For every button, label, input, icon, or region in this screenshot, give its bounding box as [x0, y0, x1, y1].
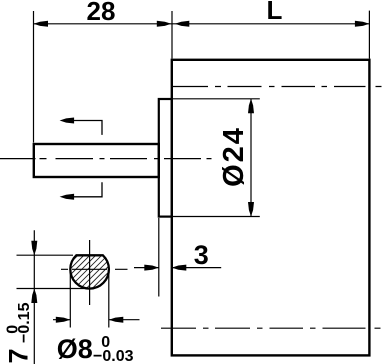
svg-text:0: 0 — [101, 334, 110, 351]
svg-text:Ø8: Ø8 — [57, 334, 93, 364]
dimension D24: dimension line — [250, 99, 252, 217]
dimension D8: right arrow — [109, 317, 124, 323]
dimension L: left arrow — [175, 21, 190, 27]
dimension D24: top extension line — [173, 98, 260, 100]
shaft center line — [0, 158, 212, 160]
flange boss outline — [159, 99, 172, 217]
section cut upper leader — [70, 121, 102, 135]
dimension D24: bottom extension line — [173, 216, 260, 218]
lower hole axis center line — [161, 327, 381, 329]
dimension D8: left extension line — [69, 271, 71, 328]
dimension L: extension line right — [368, 11, 370, 59]
svg-text:−0.15: −0.15 — [16, 302, 33, 343]
dimension D8: right extension line — [108, 271, 110, 328]
dimension D24: bottom arrow — [248, 202, 254, 217]
dimension 7: top extension line — [17, 254, 74, 256]
section cut lower leader — [70, 182, 102, 197]
dimension L: right arrow — [355, 21, 370, 27]
dimension 28: extension line left — [33, 11, 35, 143]
dimension L: dimension line — [172, 23, 369, 25]
dimension 3: dimension line left part — [134, 267, 159, 269]
dimension 7: bottom arrow — [31, 289, 37, 304]
dimension 7: rotated text with tolerance — [4, 302, 34, 363]
dimension D8: left arrow — [56, 317, 71, 323]
svg-text:7: 7 — [4, 348, 34, 363]
dimension 7: dimension line — [33, 230, 35, 364]
svg-text:−0.03: −0.03 — [93, 348, 134, 364]
svg-text:3: 3 — [194, 240, 209, 270]
dimension 28: dimension line — [34, 23, 173, 25]
svg-text:28: 28 — [87, 0, 116, 26]
svg-text:0: 0 — [5, 325, 22, 334]
body left face extension line up — [171, 11, 173, 59]
upper hole axis center line — [173, 86, 382, 88]
shaft outline — [34, 144, 159, 177]
dimension 28: right arrow — [157, 21, 172, 27]
dimension 3: right arrow — [172, 265, 187, 271]
shaft cross-section hatched — [70, 255, 109, 288]
dimension D8: dimension line right — [109, 319, 140, 321]
dimension 7: bottom extension line — [17, 288, 87, 290]
cross-section vertical center line — [89, 240, 91, 305]
section cut upper arrow — [60, 118, 75, 124]
motor body outline — [172, 60, 370, 356]
svg-text:L: L — [267, 0, 283, 25]
dimension D24: top arrow — [248, 99, 254, 114]
dimension D8: dimension line left — [53, 319, 70, 321]
dimension 3: dimension line right part — [172, 267, 221, 269]
svg-text:Ø24: Ø24 — [218, 126, 250, 187]
cross-section horizontal center line — [61, 268, 128, 270]
dimension 28: left arrow — [34, 21, 49, 27]
dimension 3: left extension line below boss — [158, 218, 160, 297]
section cut lower arrow — [60, 194, 75, 200]
dimension 7: top arrow — [31, 241, 37, 256]
dimension 3: left arrow — [144, 265, 159, 271]
